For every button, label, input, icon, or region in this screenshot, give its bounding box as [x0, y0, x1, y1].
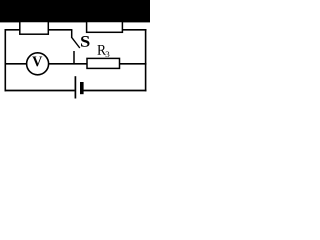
wire left [4, 29, 6, 91]
label R3 letter R [97, 45, 106, 55]
resistor R2 (top-right box) [87, 22, 123, 33]
resistor R3 box [87, 58, 120, 68]
switch S lever [72, 38, 80, 48]
switch S lower contact stub [73, 51, 75, 64]
wire middle rail [5, 63, 147, 65]
wire bottom rail right segment [83, 90, 146, 92]
wire top rail left segment (ends at switch drop) [5, 29, 73, 31]
label R3 subscript 3 [106, 52, 110, 57]
wire top rail right segment (from box2 to corner) [121, 29, 147, 31]
black band [0, 0, 150, 22]
battery short thick plate [80, 82, 84, 94]
wire right [145, 29, 147, 91]
switch label S [81, 36, 89, 47]
resistor R1 (top-left box) [20, 22, 49, 35]
switch S drop wire [71, 30, 73, 38]
battery long plate [74, 76, 76, 98]
wire bottom rail left segment [5, 90, 75, 92]
voltmeter letter V [32, 56, 42, 66]
voltmeter U1 circle [27, 53, 49, 75]
